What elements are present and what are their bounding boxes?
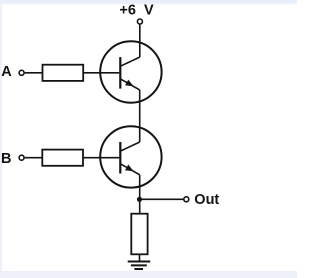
wire R1 to Q1 base <box>83 72 119 74</box>
transistor Q1 circle <box>100 41 161 102</box>
svg-text:A: A <box>1 64 12 80</box>
page background strips <box>0 0 297 5</box>
terminal Out <box>184 197 189 202</box>
resistor R1 <box>43 65 84 81</box>
terminal B <box>19 155 24 160</box>
wire A to R1 <box>25 72 43 74</box>
wire +6V to Q1 collector <box>139 24 141 57</box>
transistor Q1 base bar <box>119 57 121 89</box>
transistor Q2 emitter arrow <box>125 165 134 172</box>
transistor Q2 base bar <box>119 142 121 174</box>
wire R2 to Q2 base <box>83 157 119 159</box>
node junction dot <box>137 197 142 202</box>
transistor Q1 collector lead <box>120 57 139 66</box>
transistor Q1 emitter lead <box>120 79 139 90</box>
resistor R3 <box>131 214 147 255</box>
svg-text:V: V <box>144 3 154 19</box>
terminal +6V <box>137 19 142 24</box>
transistor Q2 emitter lead <box>120 164 139 175</box>
wire R3 to ground <box>139 254 141 261</box>
wire node to Out terminal <box>140 198 184 200</box>
svg-text:B: B <box>1 151 11 167</box>
svg-text:Out: Out <box>194 192 219 208</box>
resistor R2 <box>42 150 83 166</box>
wire B to R2 <box>25 157 43 159</box>
wire Q1 emitter to Q2 collector <box>139 90 141 142</box>
transistor Q2 circle <box>100 126 161 187</box>
transistor Q2 collector lead <box>120 142 139 151</box>
transistor Q1 emitter arrow <box>125 80 134 87</box>
terminal A <box>19 70 24 75</box>
ground <box>128 262 151 270</box>
svg-text:+6: +6 <box>119 3 136 19</box>
wire Q2 emitter to output node <box>139 175 141 214</box>
